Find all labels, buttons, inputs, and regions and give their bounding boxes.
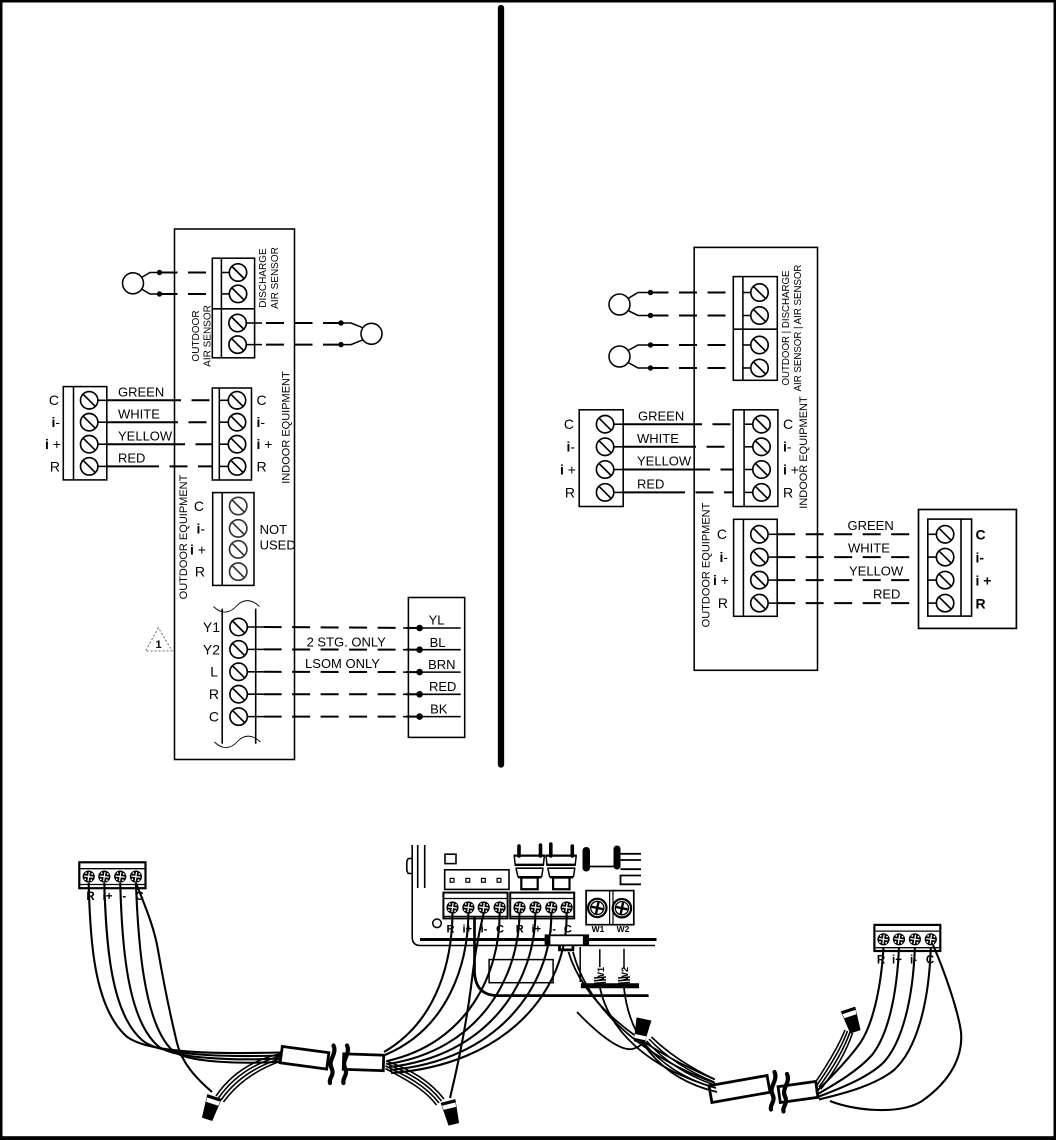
wire RED (to outdoor unit)	[777, 602, 918, 604]
svg-text:RED: RED	[118, 451, 145, 466]
svg-text:YELLOW: YELLOW	[118, 428, 173, 443]
svg-text:i-: i-	[566, 439, 575, 455]
screws outdoor unit block	[936, 526, 953, 612]
svg-text:BK: BK	[430, 702, 448, 717]
svg-text:R: R	[718, 595, 728, 611]
svg-text:YELLOW: YELLOW	[637, 454, 692, 469]
small square component	[445, 854, 456, 863]
dashed wire to DAS	[160, 273, 213, 295]
svg-text:R: R	[50, 458, 60, 474]
screws DAS right	[751, 284, 768, 301]
wire RED (right)	[623, 491, 667, 493]
cable sleeve right half B	[778, 1081, 818, 1102]
screws R i+ i- C (bottom right block)	[877, 933, 889, 945]
wire GREEN (right)	[623, 423, 684, 425]
svg-text:i-: i-	[51, 414, 60, 430]
labels C i- i+ R (left of not-used block)	[190, 498, 206, 580]
outdoor air sensor bulb (right)	[609, 346, 630, 367]
svg-text:i-: i-	[481, 923, 488, 935]
svg-text:i+: i+	[463, 923, 472, 935]
screw stubs	[221, 273, 262, 345]
screws left external block	[81, 392, 98, 409]
cable from grommet and W wires to right sleeve	[569, 952, 718, 1092]
svg-text:R: R	[86, 891, 95, 903]
capacitor pill 2	[614, 846, 621, 870]
screw DAS-2	[229, 285, 246, 302]
indoor equipment terminal block	[212, 388, 251, 480]
svg-text:i +: i +	[45, 436, 61, 452]
outdoor air sensor bulb	[361, 323, 382, 344]
wire nut (left)	[200, 1094, 222, 1122]
thermostat terminal block (left external)	[63, 387, 107, 480]
svg-text:GREEN: GREEN	[848, 518, 894, 533]
sensor terminal block (DAS+OAS, right)	[733, 277, 777, 381]
labels C i- i+ R (bold, outdoor unit)	[976, 527, 992, 612]
svg-text:i +: i +	[976, 572, 992, 588]
svg-text:L: L	[210, 664, 218, 680]
W1 W2 terminal block	[586, 891, 634, 925]
svg-text:i-: i-	[910, 955, 917, 967]
screw DAS-1	[229, 264, 246, 281]
relay stack 2	[545, 844, 577, 889]
labels R i+ i- C	[86, 891, 143, 903]
wire nut (right)	[841, 1007, 863, 1035]
discharge air sensor bulb (right)	[609, 294, 630, 315]
labels C i- i+ R (left of outdoor block)	[713, 526, 729, 611]
junction dots	[338, 320, 343, 325]
svg-text:C: C	[194, 498, 204, 514]
svg-text:W1: W1	[596, 966, 607, 981]
svg-text:OUTDOOR EQUIPMENT: OUTDOOR EQUIPMENT	[178, 474, 190, 599]
screws indoor block	[228, 392, 245, 409]
wire GREEN (to outdoor unit)	[777, 533, 918, 535]
svg-text:DISCHARGE: DISCHARGE	[258, 248, 269, 308]
wire YELLOW (to outdoor unit)	[777, 579, 918, 581]
screw OAS-1	[229, 314, 246, 331]
svg-text:OUTDOOR | DISCHARGE: OUTDOOR | DISCHARGE	[781, 270, 792, 386]
svg-text:R: R	[209, 686, 219, 702]
svg-text:AIR SENSOR | AIR SENSOR: AIR SENSOR | AIR SENSOR	[793, 265, 804, 392]
wire YELLOW	[107, 443, 167, 445]
relay stack 1	[514, 845, 546, 889]
svg-text:i +: i +	[560, 461, 576, 477]
svg-text:NOT: NOT	[260, 522, 288, 537]
svg-text:2 STG. ONLY: 2 STG. ONLY	[307, 634, 387, 649]
svg-text:LSOM ONLY: LSOM ONLY	[305, 656, 380, 671]
wire WHITE	[107, 421, 160, 423]
spring terminals	[594, 977, 630, 983]
labels C i- i+ R (left of block)	[560, 416, 576, 500]
screws OAS right	[751, 336, 768, 353]
mid rectangle on panel	[489, 960, 553, 983]
svg-text:C: C	[564, 923, 572, 935]
svg-text:WHITE: WHITE	[637, 431, 679, 446]
svg-text:RED: RED	[873, 587, 900, 602]
svg-text:W2: W2	[620, 967, 631, 981]
svg-text:1: 1	[155, 639, 161, 651]
svg-text:Y1: Y1	[203, 619, 220, 635]
note triangle 1	[145, 628, 172, 651]
svg-text:W1: W1	[592, 924, 605, 934]
svg-text:WHITE: WHITE	[848, 541, 890, 556]
svg-text:WHITE: WHITE	[118, 406, 160, 421]
svg-text:INDOOR EQUIPMENT: INDOOR EQUIPMENT	[798, 396, 810, 509]
4-pin connector	[445, 870, 509, 890]
svg-text:YL: YL	[429, 613, 445, 628]
thermostat outline box (left)	[175, 229, 295, 760]
thick bus bar	[581, 983, 639, 988]
wires from left block	[89, 883, 281, 1092]
svg-text:USED: USED	[260, 538, 296, 553]
screws Y1 Y2 L R C	[230, 618, 247, 635]
cable sleeve left half	[280, 1046, 329, 1069]
torn edge bottom	[215, 736, 261, 747]
svg-text:W2: W2	[617, 924, 630, 934]
svg-text:i-: i-	[783, 439, 792, 455]
svg-text:C: C	[209, 709, 219, 725]
screws not-used block	[230, 497, 247, 580]
outdoor stat terminal block (bottom right)	[874, 925, 940, 951]
svg-text:RED: RED	[637, 477, 664, 492]
labels C i- i+ R (right of indoor block)	[257, 392, 273, 474]
svg-text:R: R	[565, 484, 575, 500]
svg-text:INDOOR EQUIPMENT: INDOOR EQUIPMENT	[280, 371, 292, 484]
labels C i- i+ R (right of indoor block)	[783, 416, 799, 500]
svg-text:C: C	[564, 416, 574, 432]
svg-text:YELLOW: YELLOW	[849, 564, 904, 579]
labels R i+ i- C (bottom right)	[877, 955, 934, 967]
indoor equipment terminal block (right)	[733, 410, 778, 507]
bundle from nut to right sleeve	[644, 1037, 715, 1087]
dashed field wires Y1-C	[264, 627, 420, 717]
screw OAS-2	[229, 336, 246, 353]
cable grommet	[546, 935, 589, 945]
wire RED	[107, 465, 141, 467]
svg-text:i +: i +	[190, 541, 206, 557]
svg-text:R: R	[877, 955, 886, 967]
case edge left	[412, 845, 655, 946]
wire color box YL BL BRN RED BK	[408, 598, 464, 738]
outdoor unit terminal block (bold)	[919, 510, 1017, 629]
wire bundle to left wire nut	[216, 1054, 281, 1103]
thermostat sub-base block (bottom left)	[79, 862, 145, 888]
board bottom edge	[420, 938, 657, 941]
board lower panel right	[579, 947, 581, 982]
thermostat terminal block (right diagram left external)	[579, 410, 623, 507]
svg-text:R: R	[516, 923, 524, 935]
outdoor equipment (not used) terminal block	[213, 493, 254, 586]
screws R i+ i- C (bottom left block)	[83, 871, 95, 883]
center divider line	[498, 8, 504, 765]
wires from sleeve to outdoor stat block	[816, 945, 961, 1110]
svg-text:R: R	[783, 484, 793, 500]
wire WHITE (right)	[623, 446, 678, 448]
svg-text:i+: i+	[892, 955, 902, 967]
svg-text:i +: i +	[713, 572, 729, 588]
svg-text:AIR SENSOR: AIR SENSOR	[270, 247, 281, 309]
svg-text:i +: i +	[783, 461, 799, 477]
junction dots in color box	[416, 625, 423, 632]
strain clamp below grommet	[560, 945, 573, 950]
svg-text:R: R	[257, 458, 267, 474]
svg-text:R: R	[447, 923, 455, 935]
cable break marks	[330, 1046, 335, 1084]
dashed wire to OAS	[262, 323, 341, 345]
wire nut (right of board)	[632, 1017, 652, 1044]
junction dots	[157, 270, 162, 275]
svg-text:C: C	[49, 392, 59, 408]
wire WHITE (to outdoor unit)	[777, 556, 918, 558]
wire nut (center)	[441, 1099, 462, 1126]
svg-text:C: C	[926, 955, 934, 967]
svg-text:i+: i+	[532, 923, 541, 935]
svg-text:C: C	[717, 526, 727, 542]
strip labels	[447, 923, 572, 935]
svg-text:R: R	[195, 564, 205, 580]
outdoor equipment terminal block (right)	[734, 519, 778, 616]
svg-text:GREEN: GREEN	[118, 385, 164, 400]
wires from control strips to sleeve	[384, 913, 567, 1098]
strip screws	[446, 901, 572, 913]
svg-text:OUTDOOR: OUTDOOR	[191, 310, 202, 361]
cable sleeve second half	[343, 1054, 384, 1071]
discharge air sensor bulb	[123, 273, 144, 294]
svg-text:i-: i-	[257, 414, 266, 430]
svg-text:R: R	[976, 595, 986, 611]
svg-text:AIR SENSOR: AIR SENSOR	[203, 305, 214, 367]
mounting hole	[433, 919, 442, 928]
wire bundle to center wire nut	[386, 1061, 445, 1105]
svg-text:C: C	[783, 416, 793, 432]
svg-text:C: C	[257, 392, 267, 408]
terminal strip 2	[510, 893, 574, 919]
svg-text:BL: BL	[430, 635, 446, 650]
svg-text:C: C	[496, 923, 504, 935]
bundle from sleeve to right wire nut	[815, 1030, 853, 1089]
svg-text:i-: i-	[549, 923, 556, 935]
lower panel line	[475, 916, 649, 996]
Y1-C partial terminal block with torn edges	[222, 609, 256, 744]
svg-text:GREEN: GREEN	[638, 408, 684, 423]
svg-text:i-: i-	[719, 549, 728, 565]
svg-text:C: C	[976, 527, 986, 543]
sensor terminal block (DAS+OAS, left)	[212, 258, 254, 358]
wire YELLOW (right)	[623, 469, 692, 471]
cable break marks right	[771, 1072, 776, 1110]
capacitor pill 1	[583, 847, 591, 872]
svg-text:BRN: BRN	[428, 657, 455, 672]
labels C i- i+ R (left of block)	[45, 392, 61, 474]
screw stubs Y block	[247, 627, 263, 717]
hook wire to right-of-board wire nut	[577, 1012, 645, 1049]
terminal strip 1	[443, 893, 507, 919]
svg-text:i +: i +	[257, 436, 273, 452]
wire GREEN	[107, 399, 163, 401]
thermostat outline box (right)	[694, 247, 817, 670]
svg-text:i-: i-	[976, 549, 985, 565]
wire color labels	[428, 613, 456, 717]
torn edge top	[214, 601, 260, 612]
svg-text:Y2: Y2	[203, 641, 220, 657]
cap wiring	[590, 854, 641, 885]
svg-text:RED: RED	[429, 679, 456, 694]
cable sleeve right half A	[709, 1076, 770, 1103]
labels Y1 Y2 L R C	[203, 619, 220, 725]
svg-text:i-: i-	[196, 520, 205, 536]
svg-text:OUTDOOR EQUIPMENT: OUTDOOR EQUIPMENT	[700, 502, 712, 627]
